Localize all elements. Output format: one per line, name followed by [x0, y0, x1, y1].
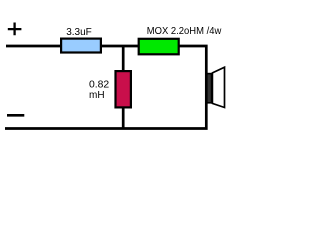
minus terminal	[7, 114, 24, 117]
wire junction vertical to inductor	[122, 46, 125, 129]
speaker LS1 horn	[212, 67, 224, 107]
svg-text:0.82: 0.82	[89, 80, 110, 91]
svg-text:mH: mH	[89, 90, 105, 101]
inductor L1 0.82mH	[116, 71, 131, 107]
speaker LS1 driver	[207, 74, 212, 103]
svg-text:3.3uF: 3.3uF	[66, 27, 92, 38]
capacitor C1 3.3uF	[61, 39, 101, 53]
wire top rail, right drop and bottom rail	[5, 46, 206, 129]
resistor R1 MOX 2.2 ohm 4w	[139, 39, 179, 55]
svg-text:MOX 2.2oHM /4w: MOX 2.2oHM /4w	[147, 26, 222, 37]
plus terminal	[8, 23, 22, 36]
